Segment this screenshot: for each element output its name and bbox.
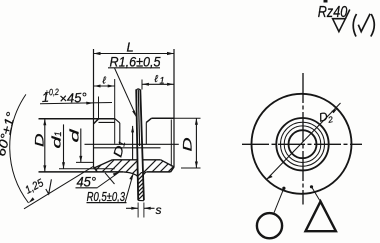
svg-text:R1,6±0,5: R1,6±0,5 [110, 54, 161, 70]
svg-text:s: s [156, 203, 162, 217]
svg-text:45°: 45° [77, 174, 97, 190]
svg-text:1: 1 [160, 76, 165, 86]
svg-text:D: D [181, 137, 195, 152]
svg-text:d: d [68, 129, 82, 143]
svg-text:D: D [33, 133, 47, 147]
svg-text:+0,2: +0,2 [45, 87, 60, 98]
svg-text:L: L [127, 40, 134, 55]
svg-text:d: d [50, 136, 64, 149]
svg-text:1: 1 [53, 131, 63, 136]
svg-text:R0,5±0,3: R0,5±0,3 [87, 189, 126, 204]
